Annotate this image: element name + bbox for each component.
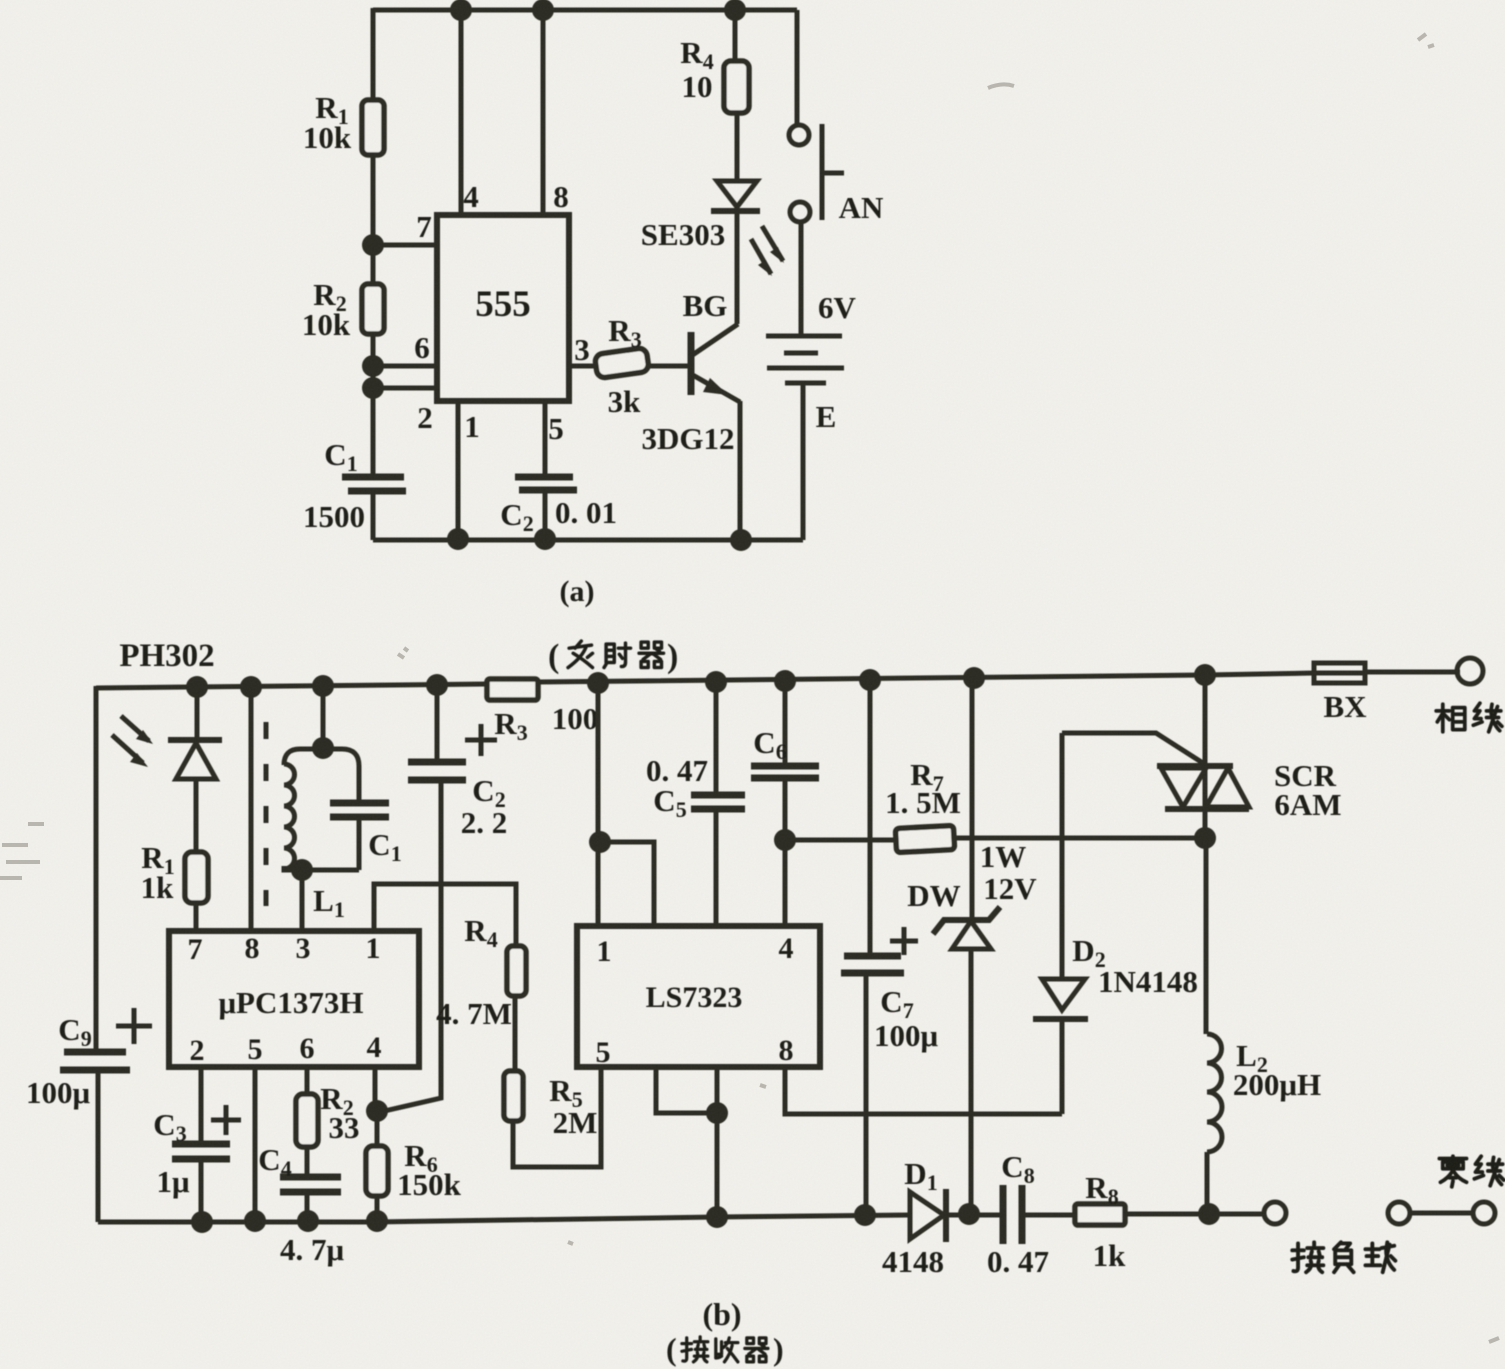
wire rail to C2 (435, 685, 440, 762)
label (transmitter) (548, 638, 678, 675)
LED SE303 (641, 181, 760, 252)
wire top rail (a) (373, 8, 797, 13)
capacitor C1 (b) (330, 803, 402, 866)
wire pin 8 (541, 10, 546, 215)
wire rail to C5 (714, 682, 719, 794)
wire C1 to bottom rail (371, 491, 376, 540)
node C6/R7 (774, 829, 796, 851)
terminal phase line (1457, 658, 1483, 684)
resistor R3 (b) (487, 679, 538, 700)
wire emitter down (738, 401, 743, 540)
wire pin 8 (b) (249, 687, 254, 931)
node LS pins join (706, 1102, 728, 1124)
node rail/SCR (1194, 664, 1216, 686)
label connect load (1292, 1242, 1395, 1272)
resistor R5 (504, 1071, 523, 1121)
wire pin 3 (569, 364, 597, 369)
wire R4 to LED (735, 113, 740, 180)
wire left vertical C9 top (94, 686, 99, 1051)
wire LS pin1 (596, 683, 601, 926)
light arrows PH302 (112, 716, 153, 767)
battery E 6V (766, 290, 857, 434)
switch AN (789, 124, 883, 225)
wire C2 to bottom rail (543, 490, 548, 540)
wire pin 6 (373, 364, 437, 369)
wire C9 to bottom rail (96, 1070, 101, 1222)
capacitor C1 (303, 437, 406, 534)
wire LS pin to ground rail (715, 1067, 720, 1217)
node rail/C4 (297, 1210, 319, 1232)
wire rail to C7 (868, 680, 873, 955)
inductor L1 (284, 749, 359, 922)
wire top rail (b) (96, 684, 487, 688)
IC U3 LS7323 (577, 926, 820, 1069)
wire C5 to LS top (714, 809, 719, 926)
IC U1 555 (414, 179, 590, 446)
wire C2 down to pin4 node (380, 780, 441, 1112)
node rail/LS ground (706, 1206, 728, 1228)
terminal load (1264, 1202, 1286, 1224)
wire pin8 LS to D2 (785, 1067, 1062, 1114)
node rail/C7 (854, 1204, 876, 1226)
wire C7 to bottom rail (864, 973, 869, 1215)
resistor R6 (366, 1146, 388, 1196)
node rail/R6 (366, 1210, 388, 1232)
wire L2 to bottom rail (1205, 1152, 1210, 1214)
wire tank top right / C1 (300, 749, 359, 803)
wire R4 top (733, 10, 738, 61)
wire switch to battery (799, 222, 804, 336)
wire BX to phase terminal (1365, 670, 1460, 675)
wire DW to bottom rail (969, 949, 974, 1214)
wire pin 2 uPC to C3 (199, 1067, 204, 1143)
wire pin 5 uPC down (253, 1067, 258, 1222)
resistor R1 (b) (185, 852, 208, 903)
wire pin 2 (373, 386, 437, 391)
capacitor C5 (646, 753, 745, 822)
node pin4/R6 (366, 1100, 388, 1122)
wire R1 to node7 (371, 155, 376, 245)
wire pin 5 (543, 401, 548, 477)
terminal neutral b (1473, 1202, 1495, 1224)
wire R8 to load terminal (1125, 1212, 1263, 1217)
node rail/C3 (191, 1211, 213, 1233)
wire R4 to R5 (513, 996, 518, 1071)
wire rail to C6 (783, 681, 788, 766)
light arrows SE303 (751, 226, 784, 276)
capacitor C2 (b) (408, 724, 507, 840)
wire battery to bottom rail (801, 383, 806, 540)
node rail/pin5 (244, 1210, 266, 1232)
node pin6 junction (362, 355, 384, 377)
capacitor C6 (751, 725, 819, 778)
IC U2 uPC1373H (169, 931, 419, 1067)
resistor R8 (1075, 1170, 1126, 1273)
resistor R2 (b) (296, 1094, 318, 1147)
node tank bottom (291, 859, 313, 881)
wire bottom rail (a) (373, 538, 803, 543)
wire C4 to bottom rail (305, 1192, 310, 1222)
node LS pin1 branch (589, 831, 611, 853)
wire pin 6 uPC to R2 (305, 1067, 310, 1094)
wire C3 to bottom rail (199, 1159, 204, 1222)
node top rail / R4 (724, 0, 746, 21)
node bottom rail / emitter (730, 529, 752, 551)
wire pin 4 (459, 10, 464, 215)
node R7/SCR (1194, 827, 1216, 849)
wire R3 to base (646, 364, 689, 369)
wire R6 to bottom rail (375, 1196, 380, 1222)
photodiode PH302 (168, 740, 222, 779)
wire bottom rail (b) left (98, 1215, 910, 1222)
caption (receiver) (666, 1331, 784, 1367)
wire pin1 branch (600, 842, 654, 926)
wire pin 4 uPC to node (373, 1067, 378, 1111)
core dashed line L1 (264, 722, 269, 906)
terminal neutral a (1388, 1202, 1410, 1224)
wire R7 to SCR (954, 836, 1205, 841)
label phase line (1436, 703, 1502, 732)
node rail/C2 (426, 674, 448, 696)
wire LED to collector (735, 211, 740, 324)
wire R2 to C4 (305, 1147, 310, 1177)
wire rail to tank (321, 686, 326, 748)
wire pin 3 (b) (300, 870, 305, 931)
resistor R4 (b) (507, 946, 526, 996)
node rail/C5 (705, 671, 727, 693)
capacitor C3 (153, 1105, 241, 1199)
node pin7 junction (362, 234, 384, 256)
transistor Q1 BG 3DG12 (642, 288, 741, 456)
wire node to R6 (375, 1111, 380, 1146)
wire rail to SCR (1203, 675, 1208, 766)
node top rail / pin8 (532, 0, 554, 21)
capacitor C8 (987, 1149, 1075, 1279)
capacitor C7 (841, 927, 938, 1053)
wire SCR to L2 (1204, 838, 1209, 1034)
resistor R2 (362, 284, 384, 334)
wire C6 to pin4 LS (783, 778, 788, 926)
wire rail to DW (970, 678, 975, 920)
wire SCR gate (1062, 733, 1206, 765)
wire pin1 uPC to R4 (374, 884, 516, 946)
wire node2 down to C1 (371, 366, 376, 476)
label neutral line (1439, 1156, 1503, 1187)
diode D1 4148 (882, 1156, 1003, 1279)
wire R5 to pin5 LS (513, 1067, 601, 1167)
inductor L2 (1207, 1034, 1321, 1152)
wire R2 to node6 (371, 334, 376, 366)
wire pin 7 (373, 243, 437, 248)
wire LS bottom pins joined (656, 1067, 717, 1113)
wire rail to switch (795, 10, 800, 125)
resistor R3 (594, 348, 649, 379)
node rail/DW (963, 667, 985, 689)
node top rail / pin4 (450, 0, 472, 21)
node bottom rail / C2 (534, 528, 556, 550)
node tank top (312, 737, 334, 759)
node rail/LS pin1 (587, 672, 609, 694)
wire neutral link (1411, 1211, 1472, 1216)
wire node7 to R2 (371, 245, 376, 284)
wire PH302 branch (195, 687, 200, 740)
wire C1 bottom branch (357, 817, 362, 870)
wire left vertical top (371, 8, 376, 100)
wire pin 1 (456, 401, 461, 540)
resistor R1 (362, 100, 384, 155)
wire photodiode to R1 (194, 779, 199, 852)
diode D2 1N4148 (1033, 733, 1198, 1114)
node pin2 junction (362, 377, 384, 399)
triac SCR 6AM (1157, 758, 1342, 838)
capacitor C2 (500, 477, 617, 536)
fuse BX (1314, 663, 1367, 724)
wire R1 to pin 7 (194, 903, 199, 931)
node rail/tank (312, 675, 334, 697)
resistor R4 (724, 61, 749, 113)
node DW/rail (958, 1203, 980, 1225)
capacitor C9 (26, 1008, 152, 1110)
resistor R7 (895, 825, 954, 852)
node rail/C6 (774, 670, 796, 692)
node rail/C7 (859, 669, 881, 691)
wire node to R7 (785, 838, 896, 843)
node rail/PH302 (186, 676, 208, 698)
node rail/pin8 (240, 676, 262, 698)
capacitor C4 (258, 1142, 344, 1267)
zener DW (907, 839, 1037, 949)
node L2/rail (1198, 1203, 1220, 1225)
node bottom rail / pin1 (447, 528, 469, 550)
